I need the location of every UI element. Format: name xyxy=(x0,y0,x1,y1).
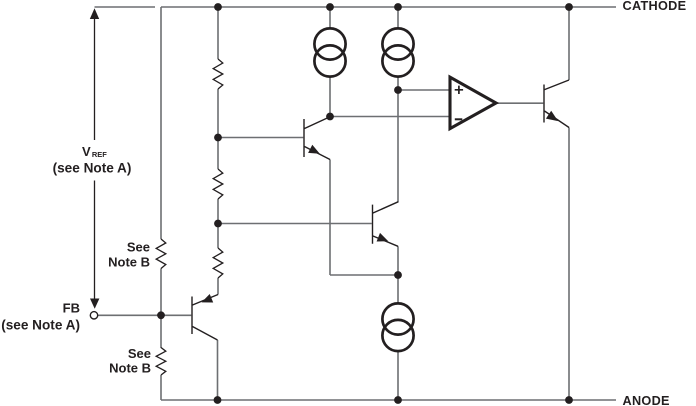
svg-text:FB: FB xyxy=(63,301,80,316)
svg-text:(see Note A): (see Note A) xyxy=(1,318,80,333)
svg-text:ANODE: ANODE xyxy=(623,394,670,406)
svg-text:REF: REF xyxy=(92,150,107,159)
svg-text:V: V xyxy=(82,144,91,159)
svg-text:Note B: Note B xyxy=(109,361,151,376)
svg-text:Note B: Note B xyxy=(108,255,150,270)
svg-text:CATHODE: CATHODE xyxy=(623,0,687,13)
svg-text:(see Note A): (see Note A) xyxy=(53,161,132,176)
svg-text:See: See xyxy=(127,240,150,255)
svg-text:See: See xyxy=(128,346,151,361)
